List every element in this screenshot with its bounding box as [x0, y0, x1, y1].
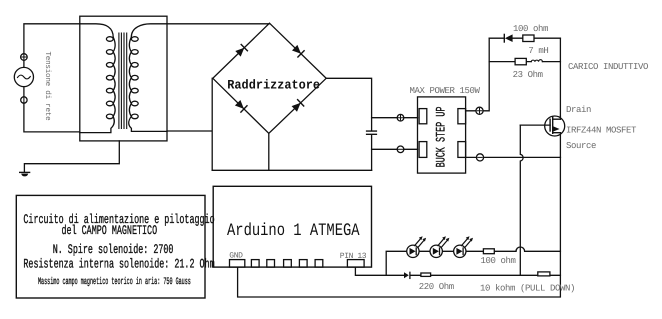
svg-text:Tensione di rete: Tensione di rete	[43, 52, 52, 122]
svg-text:23 Ohm: 23 Ohm	[513, 70, 543, 80]
svg-text:100 ohm: 100 ohm	[481, 256, 516, 266]
svg-text:Arduino 1 ATMEGA: Arduino 1 ATMEGA	[227, 221, 360, 241]
svg-text:N. Spire solenoide: 2700: N. Spire solenoide: 2700	[53, 242, 174, 257]
svg-text:IRFZ44N MOSFET: IRFZ44N MOSFET	[566, 126, 637, 136]
svg-text:MAX POWER 150W: MAX POWER 150W	[410, 86, 481, 96]
svg-text:Massimo campo magnetico teoric: Massimo campo magnetico teorico in aria:…	[38, 276, 191, 287]
svg-text:PIN 13: PIN 13	[340, 252, 367, 261]
svg-text:GND: GND	[229, 252, 243, 261]
svg-text:Source: Source	[566, 141, 596, 151]
svg-text:BUCK STEP UP: BUCK STEP UP	[433, 106, 448, 167]
svg-text:CARICO INDUTTIVO: CARICO INDUTTIVO	[568, 62, 648, 72]
svg-text:220 Ohm: 220 Ohm	[419, 282, 454, 292]
svg-text:Resistenza interna solenoide:: Resistenza interna solenoide: 21.2 Ohm	[23, 257, 214, 272]
svg-text:100 ohm: 100 ohm	[513, 24, 548, 34]
svg-text:7 mH: 7 mH	[528, 46, 548, 56]
svg-text:Drain: Drain	[566, 105, 591, 115]
svg-text:10 kohm (PULL DOWN): 10 kohm (PULL DOWN)	[480, 283, 575, 293]
svg-text:Raddrizzatore: Raddrizzatore	[227, 78, 320, 93]
svg-text:del CAMPO MAGNETICO: del CAMPO MAGNETICO	[62, 223, 158, 238]
